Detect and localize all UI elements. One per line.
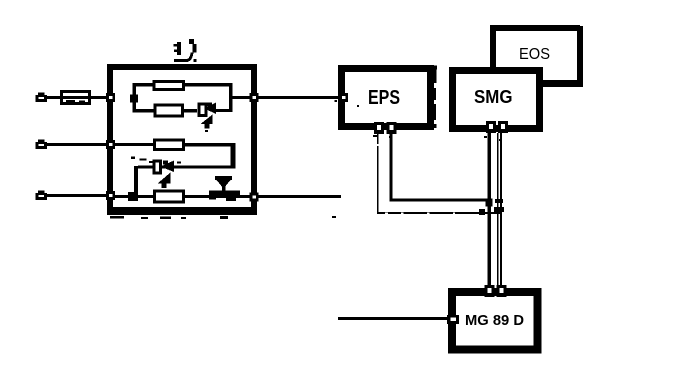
wire rejoin vertical: [229, 83, 233, 112]
EPS box: [342, 69, 431, 127]
EOS box: [490, 25, 583, 87]
wire row1 output: [230, 96, 341, 99]
zener diode V1: [199, 103, 216, 129]
fuse F1: [62, 92, 90, 104]
junction node row3: [128, 192, 138, 201]
wire drop to row3: [134, 166, 138, 196]
scan noise specks: [66, 100, 502, 218]
svg-text:SMG: SMG: [474, 87, 513, 107]
svg-text:MG 89 D: MG 89 D: [465, 312, 524, 329]
wire middle horizontal: [138, 166, 233, 169]
wire row1 branch down: [133, 99, 198, 113]
control unit box U1: [108, 67, 256, 215]
node pad MG top 1: [485, 285, 495, 297]
svg-text:EPS: EPS: [368, 87, 400, 109]
node pad EPS bottom 1: [374, 122, 384, 134]
resistor R4: [155, 191, 184, 202]
wire row2 right and down: [184, 143, 236, 169]
wire diode to rejoin: [215, 109, 232, 112]
zener diode V2: [154, 161, 174, 189]
wire input 3: [46, 194, 110, 197]
wire input 2: [46, 143, 110, 146]
noise ticks below box: [110, 216, 228, 219]
node pad EPS left: [339, 93, 348, 102]
node pad right row3: [250, 193, 259, 202]
junction node row1 split: [130, 95, 138, 103]
dash noise above middle wire: [131, 157, 181, 164]
node pad EPS bottom 2: [387, 122, 397, 134]
resistor R2: [155, 105, 183, 116]
wire row1 branch up: [133, 83, 232, 97]
node pad MG top 2: [497, 285, 507, 297]
resistor R1: [154, 82, 184, 90]
label U above box: [174, 39, 197, 62]
wire row3: [113, 195, 341, 198]
EPS box right edge raggedness: [431, 66, 437, 129]
resistor R3: [155, 140, 184, 150]
wire row2 entry: [113, 143, 154, 146]
wire input 1: [46, 96, 110, 99]
wire MG input: [338, 317, 449, 320]
svg-text:EOS: EOS: [519, 46, 550, 63]
wire EPS pair left: [377, 134, 500, 214]
terminal X1: [36, 93, 48, 103]
node pad SMG bottom 2: [498, 121, 508, 133]
terminal X2: [36, 140, 48, 150]
node pad left row2: [106, 140, 115, 149]
thyristor Q1: [209, 176, 240, 201]
node pad MG left: [447, 315, 459, 324]
wire EPS pair right: [390, 134, 490, 202]
MG box: [452, 292, 538, 350]
node pad right row1: [250, 93, 259, 102]
node pad left row3: [106, 191, 115, 200]
junction blobs bus: [479, 199, 504, 216]
node pad left row1: [106, 93, 115, 102]
node pad SMG bottom 1: [486, 121, 496, 133]
wire SMG pair right double: [498, 133, 501, 291]
SMG box: [453, 71, 540, 129]
wire SMG pair left: [487, 133, 491, 291]
terminal X3: [36, 191, 48, 201]
